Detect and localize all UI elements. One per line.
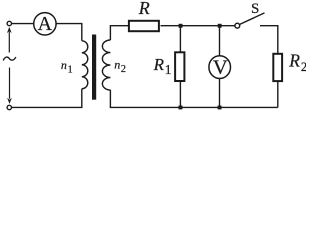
resistor R [129, 21, 159, 31]
AC source arrow up [7, 27, 12, 53]
wire V bottom [219, 78, 221, 107]
resistor R2 [273, 54, 282, 81]
svg-text:1: 1 [68, 65, 73, 76]
transformer primary winding n1 [82, 41, 88, 89]
svg-text:R: R [138, 0, 150, 18]
svg-text:R: R [288, 51, 300, 71]
voltmeter V [209, 56, 231, 79]
svg-text:V: V [213, 57, 228, 79]
transformer core [92, 35, 96, 100]
terminal J2 (bottom-left) [7, 105, 11, 109]
node junction V bottom [218, 106, 222, 110]
node junction R1 top [179, 24, 183, 28]
svg-text:2: 2 [301, 60, 306, 74]
wire top-left rail [12, 23, 34, 25]
wire ammeter to primary top corner [56, 24, 82, 41]
svg-text:S: S [251, 1, 259, 17]
switch S [235, 13, 265, 28]
wire R2 bottom to bottom rail [277, 82, 279, 108]
svg-text:n: n [114, 58, 120, 72]
terminal J1 (top-left) [7, 21, 11, 25]
AC source arrow down [7, 68, 12, 104]
svg-text:2: 2 [121, 64, 126, 75]
wire R1 branch top [179, 26, 181, 52]
wire V branch top [219, 26, 221, 56]
wire secondary top to resistor R [110, 26, 128, 40]
svg-text:A: A [38, 13, 53, 35]
wire bottom-right rail [110, 90, 277, 107]
svg-text:1: 1 [165, 63, 172, 78]
transformer secondary winding n2 [102, 40, 110, 90]
ammeter A [34, 13, 56, 35]
resistor R1 [175, 52, 184, 81]
svg-text:n: n [61, 58, 67, 72]
node junction V top [218, 24, 222, 28]
wire R1 bottom [179, 82, 181, 108]
AC source symbol ~ [3, 57, 16, 60]
node junction R1 bottom [179, 106, 183, 110]
wire R to switch pivot [161, 25, 236, 27]
wire switch to top-right corner down to R2 [260, 26, 278, 53]
svg-text:R: R [153, 55, 165, 74]
wire primary bottom to bottom-left rail [12, 89, 82, 108]
